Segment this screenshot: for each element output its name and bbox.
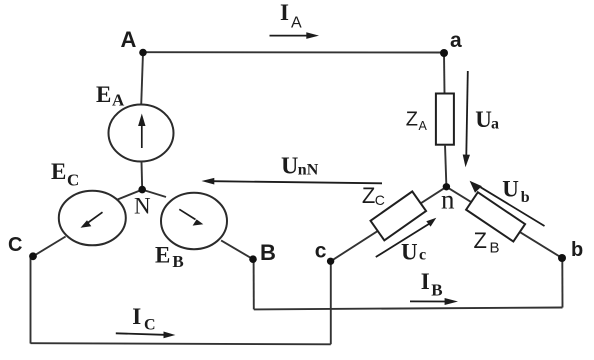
- svg-text:U: U: [475, 107, 492, 132]
- wire EA to N: [141, 161, 144, 189]
- svg-text:I: I: [421, 269, 430, 294]
- svg-text:C: C: [67, 170, 79, 189]
- svg-text:I: I: [280, 0, 289, 25]
- wire A to a (top line): [143, 51, 444, 53]
- wire B to b bottom line: [254, 308, 563, 310]
- impedance ZA: [436, 94, 454, 145]
- svg-text:E: E: [96, 82, 111, 107]
- wire c up: [330, 262, 332, 345]
- wire C down: [30, 257, 32, 344]
- wire ZA to n: [445, 145, 446, 187]
- svg-text:U: U: [281, 154, 298, 180]
- svg-text:b: b: [571, 239, 583, 261]
- emf source EC: [59, 191, 126, 246]
- voltage arrow Uc: [376, 218, 437, 257]
- svg-text:nN: nN: [298, 162, 319, 179]
- wire N to source EB: [142, 190, 166, 197]
- svg-text:B: B: [490, 240, 500, 257]
- node a: [440, 49, 448, 57]
- voltage arrow Ua: [463, 71, 470, 167]
- node c: [327, 258, 334, 265]
- svg-text:U: U: [401, 239, 418, 264]
- voltage arrow UnN: [202, 178, 383, 185]
- svg-text:A: A: [419, 119, 428, 133]
- svg-text:C: C: [144, 317, 156, 334]
- svg-text:E: E: [51, 159, 66, 184]
- node n: [443, 183, 450, 190]
- wire n to b: [446, 187, 562, 258]
- current arrow IB: [410, 298, 458, 305]
- current arrow IA: [270, 32, 320, 39]
- svg-text:c: c: [315, 239, 327, 262]
- svg-text:A: A: [121, 27, 137, 52]
- node C: [29, 252, 37, 260]
- svg-text:Z: Z: [474, 228, 487, 253]
- svg-text:a: a: [450, 29, 462, 52]
- svg-text:A: A: [291, 15, 302, 32]
- svg-text:B: B: [431, 280, 442, 299]
- svg-text:I: I: [132, 304, 141, 329]
- impedance ZB: [466, 192, 525, 241]
- svg-text:B: B: [260, 240, 276, 265]
- wire b up: [561, 258, 563, 308]
- node b: [558, 254, 566, 262]
- wire A down to source EA: [141, 53, 143, 106]
- wire EC to C: [33, 237, 66, 257]
- svg-text:A: A: [112, 90, 125, 109]
- wire B down: [253, 260, 255, 310]
- svg-text:c: c: [419, 246, 426, 263]
- svg-text:C: C: [375, 192, 385, 208]
- svg-text:B: B: [172, 252, 183, 271]
- wire n to c: [331, 187, 447, 261]
- emf source EA: [109, 105, 174, 162]
- wire N to source EC: [115, 190, 142, 201]
- emf source EB: [161, 193, 227, 249]
- svg-text:Z: Z: [406, 108, 418, 130]
- svg-text:Z: Z: [362, 183, 375, 208]
- svg-text:C: C: [8, 234, 22, 256]
- current arrow IC: [116, 332, 176, 339]
- wire a down to ZA: [443, 53, 446, 94]
- svg-text:N: N: [134, 194, 151, 219]
- node A: [139, 49, 147, 57]
- wire C to c bottom line: [31, 343, 331, 344]
- svg-text:n: n: [441, 185, 455, 215]
- svg-text:U: U: [502, 176, 519, 201]
- node N: [138, 186, 146, 194]
- wire EB to B: [221, 240, 253, 259]
- svg-text:E: E: [155, 242, 170, 267]
- node B: [249, 255, 257, 263]
- svg-text:b: b: [521, 189, 530, 206]
- impedance ZC: [371, 191, 427, 240]
- voltage arrow Ub: [470, 181, 545, 226]
- svg-text:a: a: [491, 115, 499, 132]
